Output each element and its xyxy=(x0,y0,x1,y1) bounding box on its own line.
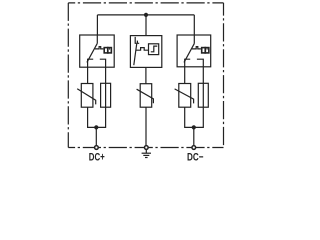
bottom contact to fuse path xyxy=(197,59,203,83)
switch blade xyxy=(184,44,194,63)
switch blade xyxy=(87,44,97,63)
monitoring element (double cartridge) xyxy=(104,48,111,53)
wire: top bus from DC+ branch to DC- branch xyxy=(97,14,194,16)
disconnector box 1 (SCI switching device, DC+ path) xyxy=(80,35,115,83)
wire: middle branch drop into disconnector 2 xyxy=(145,15,147,36)
fixed contact hook xyxy=(135,37,139,43)
wire: varistor/fuse join bar (DC- path) xyxy=(185,107,204,127)
device enclosure (dash-dot boundary) xyxy=(68,3,223,148)
bottom contact to fuse path xyxy=(100,59,106,83)
fuse F3 (DC- path) xyxy=(198,83,208,107)
node: top bus junction (middle branch) xyxy=(144,13,148,17)
wire: varistor RV2 to earth terminal xyxy=(145,107,147,145)
switch blade xyxy=(134,44,137,65)
terminal: DC- xyxy=(192,146,196,150)
terminal: earth xyxy=(144,146,148,150)
wire: junction to DC- terminal xyxy=(193,127,195,145)
varistor RV3 (DC- path) xyxy=(175,84,194,108)
node: DC- branch junction xyxy=(192,125,196,129)
fixed contact stem xyxy=(193,35,195,44)
svg-text:DC+: DC+ xyxy=(89,152,105,164)
node: DC+ branch junction xyxy=(94,125,98,129)
bottom contact to varistor path xyxy=(88,59,94,83)
fuse F1 (DC+ path) xyxy=(101,83,111,107)
enclosure bottom edge xyxy=(68,147,223,149)
monitoring element (double cartridge) xyxy=(202,48,209,53)
varistor RV2 (earth path) xyxy=(137,84,154,108)
wire: DC- branch top drop into disconnector 3 xyxy=(193,15,195,35)
fixed contact stem xyxy=(96,35,98,44)
wire: DC+ branch top drop into disconnector 1 xyxy=(96,15,98,35)
varistor RV1 (DC+ path) xyxy=(77,84,96,108)
enclosure top edge xyxy=(68,2,223,4)
wire: junction to DC+ terminal xyxy=(95,127,97,145)
svg-text:DC−: DC− xyxy=(187,152,204,164)
ground symbol (earth) xyxy=(142,150,151,158)
linkage to monitoring element xyxy=(136,48,149,51)
linkage to monitoring element xyxy=(95,47,104,49)
disconnector box 3 (SCI switching device, DC- path) xyxy=(177,35,211,84)
wire: varistor/fuse join bar (DC+ path) xyxy=(88,107,106,127)
linkage to monitoring element xyxy=(192,47,201,49)
enclosure right edge xyxy=(223,3,225,148)
disconnector box 2 (SCI switching device, earth path) xyxy=(130,36,161,68)
monitoring element (square with step response) xyxy=(149,44,159,55)
terminal: DC+ xyxy=(95,146,99,150)
bottom contact to varistor path xyxy=(185,59,191,83)
wire: middle branch into varistor RV2 xyxy=(145,67,147,83)
enclosure left edge xyxy=(67,3,69,148)
